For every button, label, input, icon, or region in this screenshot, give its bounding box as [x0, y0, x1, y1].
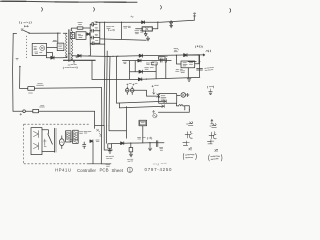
svg-text:0797-4250: 0797-4250: [145, 167, 173, 172]
svg-text:HP41U: HP41U: [55, 168, 71, 173]
svg-text:Sheet: Sheet: [112, 168, 124, 173]
svg-text:Controller: Controller: [77, 168, 97, 173]
svg-text:PCB: PCB: [100, 168, 109, 173]
